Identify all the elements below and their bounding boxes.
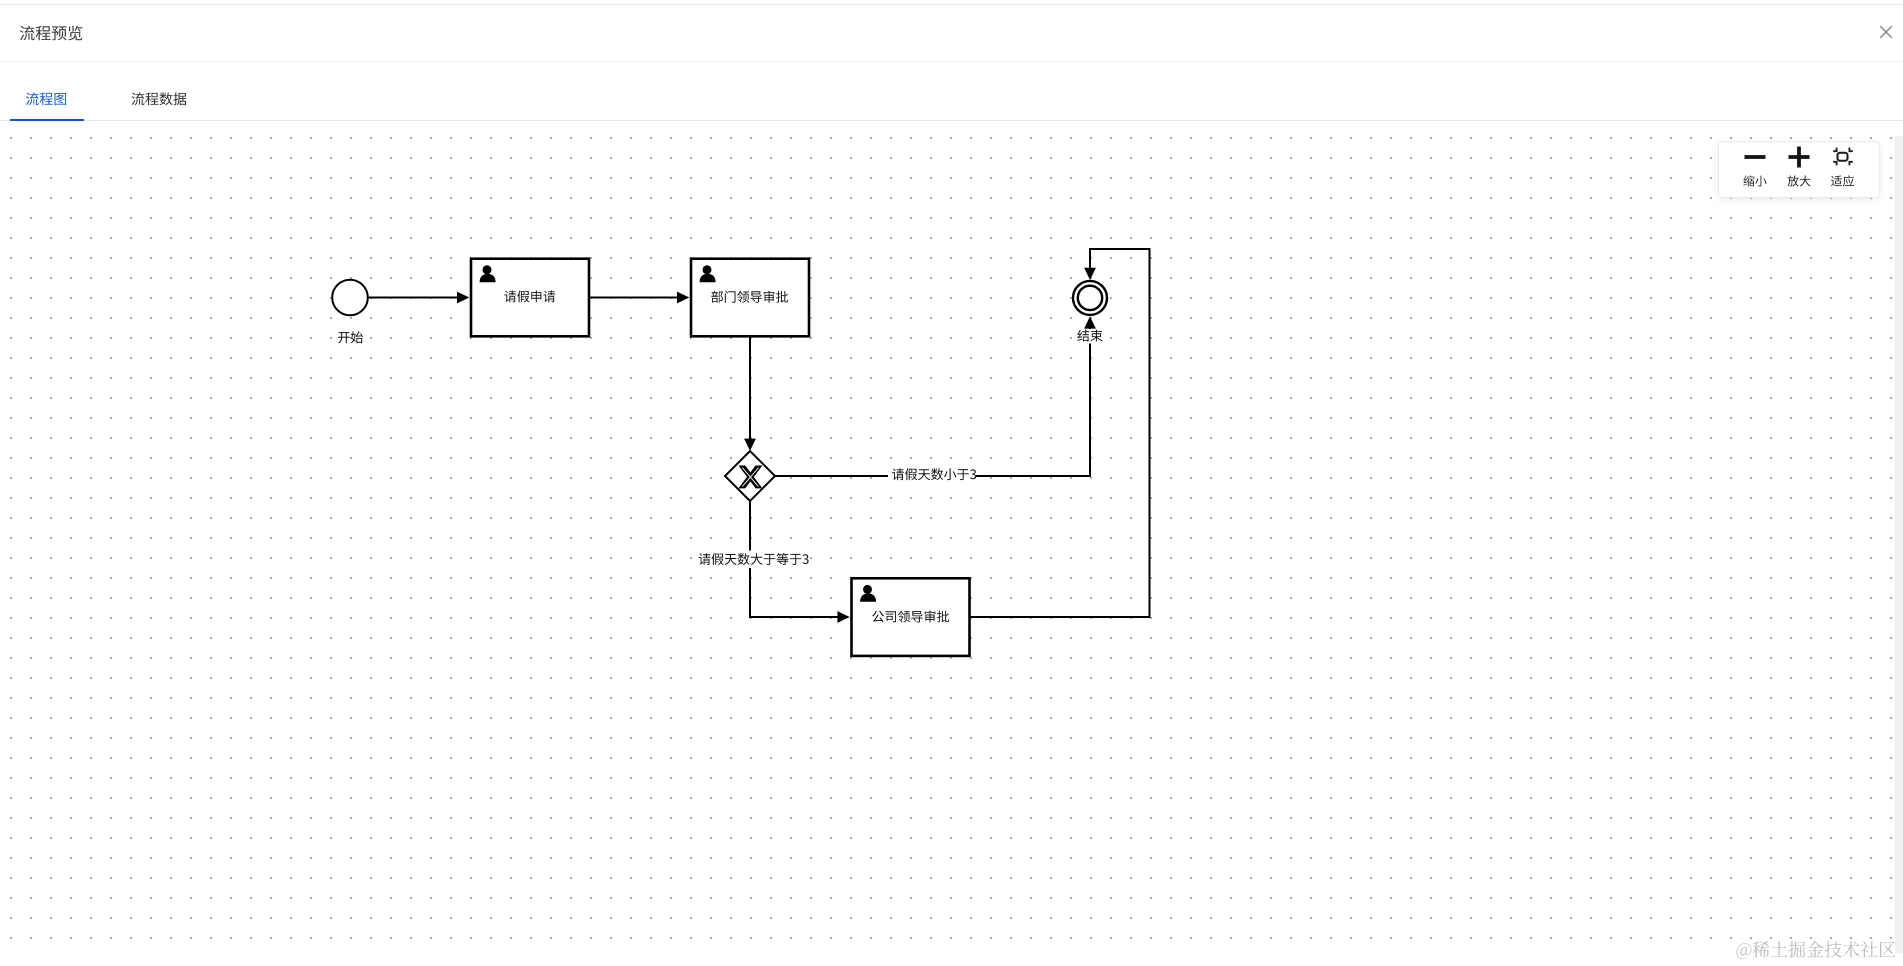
text 流程预览 — [20, 26, 82, 41]
text 流程数据 — [132, 92, 187, 105]
text 适应 — [1831, 175, 1854, 186]
text 开始 — [338, 331, 363, 343]
text 请假天数大于等于3 — [699, 553, 809, 565]
active tab ink bar — [10, 119, 84, 122]
task 部门领导审批 — [691, 259, 809, 337]
wire 部门领导审批->gateway — [749, 338, 751, 440]
wire 请假申请->部门领导审批 — [590, 297, 678, 299]
zoom toolbar card — [1718, 141, 1880, 198]
task 请假申请 — [471, 259, 589, 337]
start event circle — [332, 280, 368, 316]
task 公司领导审批 — [852, 578, 970, 656]
text 缩小 — [1743, 175, 1766, 186]
text 结束 — [1077, 330, 1102, 342]
close button X — [1878, 24, 1894, 40]
minus icon — [1745, 155, 1766, 159]
plus icon — [1789, 155, 1810, 159]
wire gateway->公司领导审批 (请假天数大于等于3) — [750, 501, 838, 617]
exclusive gateway — [725, 451, 775, 501]
text 请假申请 — [504, 290, 555, 302]
text 流程图 — [26, 92, 66, 105]
text 请假天数小于3 — [892, 468, 976, 480]
person icon — [483, 265, 492, 274]
text 公司领导审批 — [872, 610, 949, 622]
top hairline — [0, 4, 1903, 5]
scrollbar track — [1895, 136, 1903, 953]
wire 公司领导审批->end — [971, 249, 1150, 617]
end event double circle — [1073, 281, 1107, 315]
text @稀土掘金技术社区 — [1737, 941, 1896, 959]
wire start->请假申请 — [368, 297, 458, 299]
wire gateway->end (请假天数小于3) — [775, 328, 1090, 477]
text 放大 — [1787, 175, 1810, 186]
text 部门领导审批 — [711, 291, 788, 303]
label backgrounds — [888, 466, 976, 484]
header divider — [0, 61, 1903, 62]
tabs bottom rule — [0, 120, 1903, 121]
fit icon — [1833, 148, 1853, 166]
